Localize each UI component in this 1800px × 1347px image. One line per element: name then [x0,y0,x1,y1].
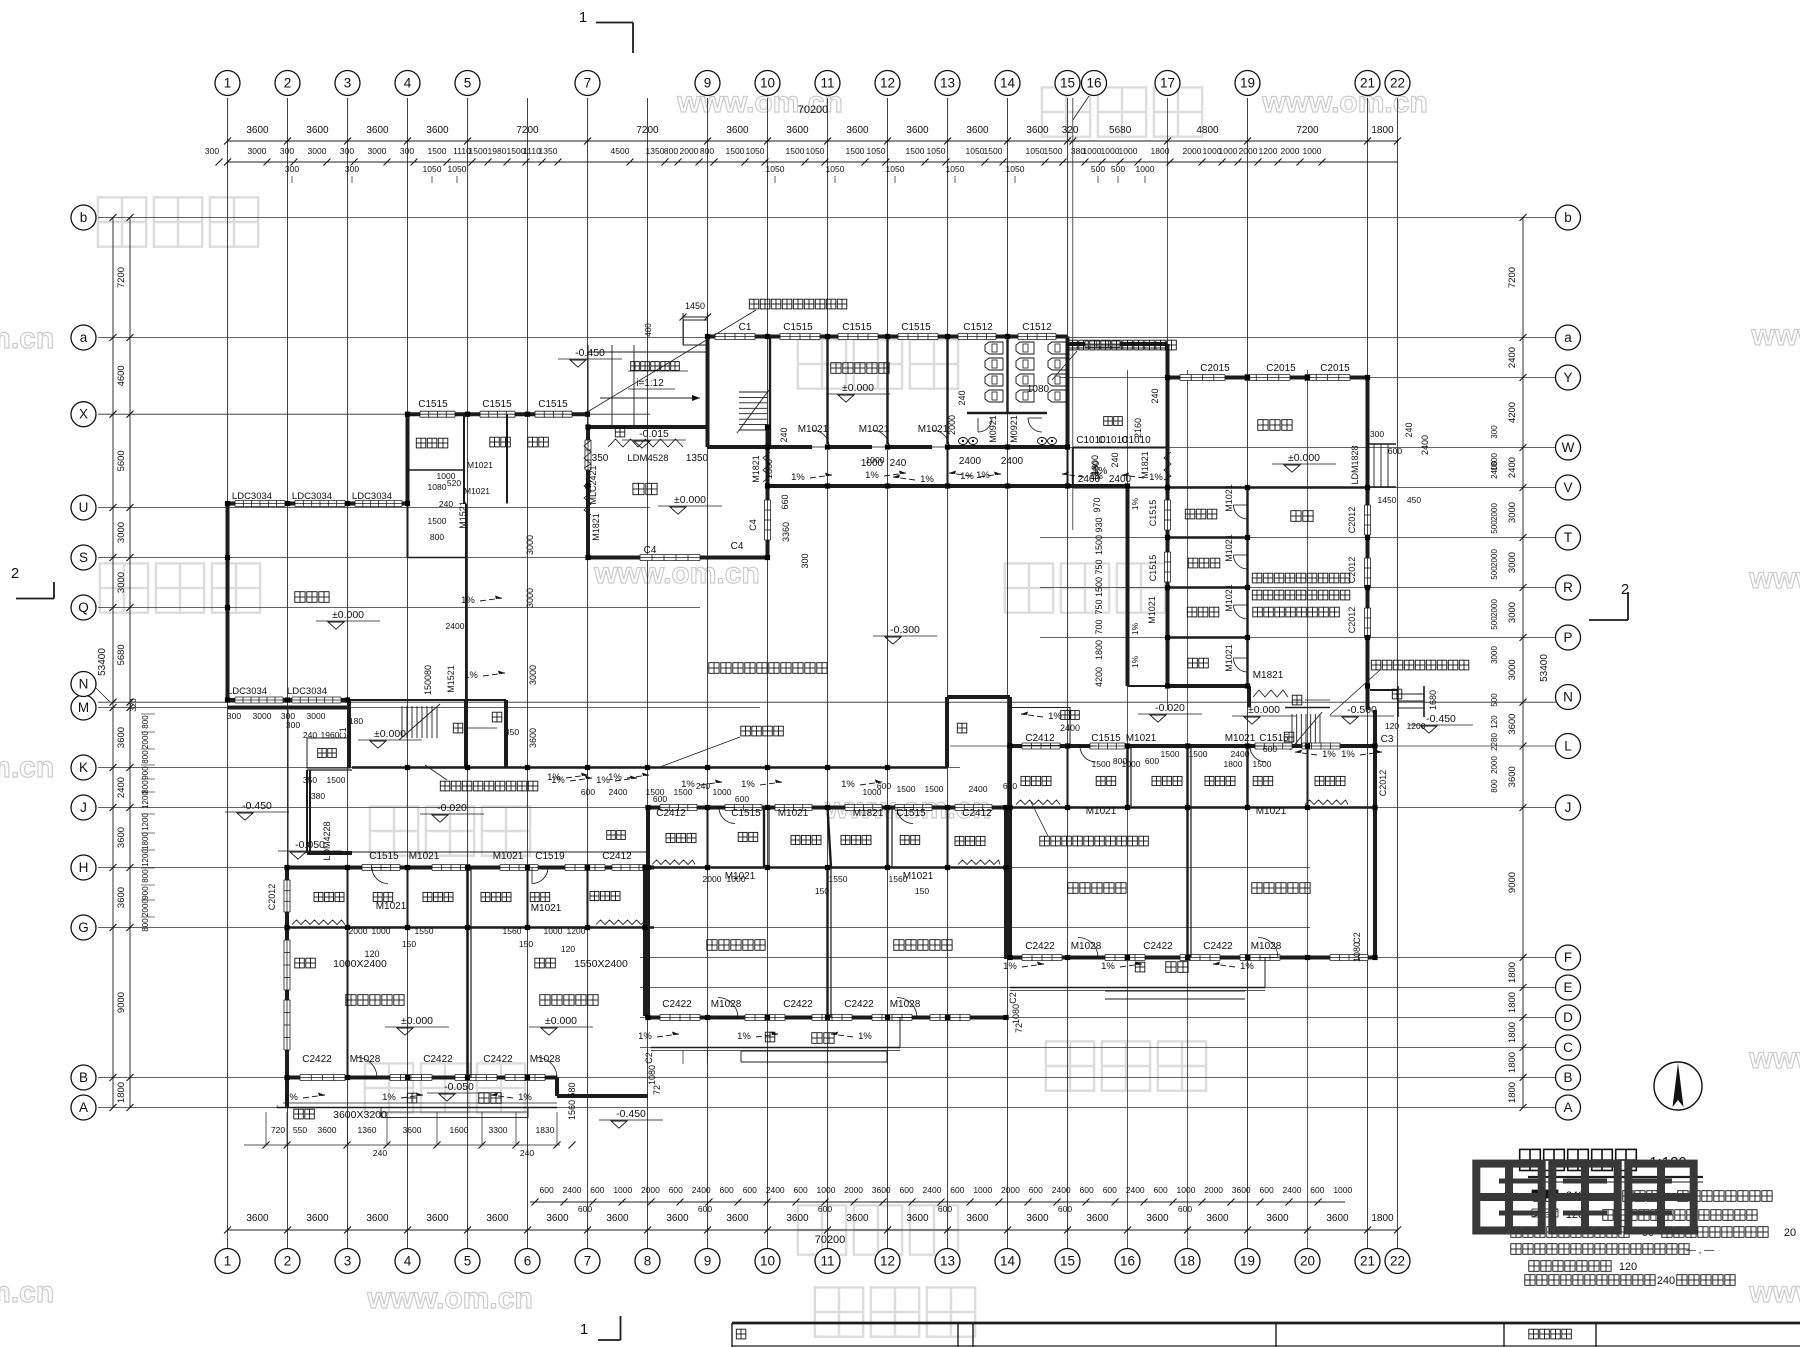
svg-text:2400: 2400 [1507,457,1518,478]
svg-text:1%: 1% [1240,961,1254,972]
svg-text:18: 18 [1180,1254,1195,1269]
svg-text:240: 240 [520,1148,534,1158]
svg-text:M1028: M1028 [711,999,742,1010]
svg-text:S: S [79,550,88,565]
svg-text:3600: 3600 [846,125,869,136]
svg-text:C2012: C2012 [267,884,277,911]
svg-text:M0921: M0921 [1009,415,1019,443]
room label medical [490,437,511,447]
svg-text:14: 14 [1000,76,1016,91]
svg-text:320: 320 [1062,125,1079,136]
svg-text:www.: www. [1748,1276,1800,1309]
svg-text:600: 600 [900,1185,914,1195]
svg-text:600: 600 [938,1204,952,1214]
svg-text:1%: 1% [638,1031,652,1042]
svg-text:C2422: C2422 [1025,941,1055,952]
svg-text:www.: www. [1748,562,1800,595]
svg-text:17: 17 [1160,76,1175,91]
svg-text:C2412: C2412 [656,808,686,819]
svg-text:1500: 1500 [674,787,693,797]
svg-text:1800: 1800 [1094,640,1104,660]
site logo [1476,1164,1693,1231]
svg-text:600: 600 [578,1204,592,1214]
svg-text:300: 300 [340,146,354,156]
svg-text:53400: 53400 [1539,654,1550,682]
svg-text:C1515: C1515 [482,399,512,410]
svg-text:300: 300 [285,164,299,174]
svg-text:b: b [1564,210,1572,225]
kitchen block outer walls [1165,375,1371,711]
svg-text:7200: 7200 [636,125,659,136]
svg-text:1560: 1560 [567,1100,577,1120]
svg-text:2: 2 [284,76,292,91]
svg-text:1350: 1350 [686,453,709,464]
svg-text:-0.500: -0.500 [1347,704,1377,716]
stair flight A treads [737,390,769,433]
svg-text:3600: 3600 [966,1213,989,1224]
svg-text:1800: 1800 [1507,962,1518,983]
svg-text:C4: C4 [731,541,744,552]
svg-text:120: 120 [561,944,575,954]
svg-text:240: 240 [957,390,967,405]
svg-text:900: 900 [141,886,150,900]
svg-text:1000: 1000 [1122,759,1141,769]
svg-text:1800: 1800 [141,832,150,850]
svg-text:19: 19 [1240,76,1255,91]
door zigzags vertical [584,440,1288,697]
svg-text:1500: 1500 [846,146,865,156]
svg-text:9: 9 [704,1254,712,1269]
room label inner court [709,663,827,674]
svg-text:300: 300 [286,720,300,730]
svg-text:580: 580 [567,1082,577,1097]
svg-text:800: 800 [664,146,678,156]
svg-text:1%: 1% [608,772,622,783]
svg-text:1800: 1800 [1507,1052,1518,1073]
svg-text:1550X2400: 1550X2400 [574,958,628,970]
svg-text:7200: 7200 [516,125,539,136]
svg-text:1000: 1000 [1219,146,1238,156]
svg-text:C1515: C1515 [369,851,399,862]
left dimension chain [97,214,155,1111]
svg-text:300: 300 [345,164,359,174]
svg-text:660: 660 [780,494,790,509]
svg-text:3600: 3600 [786,125,809,136]
svg-text:M1821: M1821 [591,513,601,541]
axis grid vertical lines [228,98,1398,1248]
center building (units 3-4) outer walls [647,805,1007,1021]
svg-text:1%: 1% [791,472,805,483]
svg-text:800: 800 [141,750,150,764]
svg-text:M1021: M1021 [531,903,562,914]
svg-text:E: E [1563,980,1572,995]
svg-text:700: 700 [1094,619,1104,634]
svg-text:3600: 3600 [1026,1213,1049,1224]
svg-text:9000: 9000 [1507,872,1518,893]
grid bubbles bottom [215,1249,1410,1274]
svg-text:240: 240 [696,781,710,791]
right building service partitions [1068,746,1308,958]
svg-text:9: 9 [704,76,712,91]
svg-text:11: 11 [820,1254,834,1269]
svg-text:C1515: C1515 [418,399,448,410]
svg-text:3000: 3000 [308,146,327,156]
svg-text:800: 800 [700,146,714,156]
svg-text:1000: 1000 [1119,146,1138,156]
svg-text:1800: 1800 [116,1082,127,1103]
svg-text:3600: 3600 [1086,1213,1109,1224]
svg-text:1050: 1050 [1026,146,1045,156]
svg-text:500: 500 [1490,566,1499,580]
svg-text:2000: 2000 [1490,599,1499,617]
svg-text:M1021: M1021 [859,424,890,435]
grid bubbles right [1556,205,1581,1120]
svg-text:1050: 1050 [886,164,905,174]
svg-text:C1: C1 [338,727,348,739]
svg-text:2400: 2400 [1001,456,1024,467]
svg-text:600: 600 [743,1185,757,1195]
room label rough processing [1258,420,1292,431]
svg-text:2000: 2000 [141,731,150,749]
section marker 2 right [1589,581,1629,620]
svg-text:3600: 3600 [116,887,127,908]
svg-text:600: 600 [1058,1204,1072,1214]
svg-text:2400: 2400 [766,1185,785,1195]
svg-text:P: P [1563,630,1572,645]
svg-text:1800: 1800 [1507,1022,1518,1043]
svg-text:1%: 1% [1130,622,1140,635]
flower bed near unit5 [1010,708,1070,746]
svg-text:3600: 3600 [426,125,449,136]
svg-text:1200: 1200 [141,849,150,867]
room label side food store [1188,558,1220,568]
svg-text:M1021: M1021 [1126,733,1157,744]
svg-text:1800: 1800 [764,459,774,479]
svg-text:3600: 3600 [366,125,389,136]
svg-text:750: 750 [1094,599,1104,614]
svg-text:600: 600 [590,1185,604,1195]
svg-text:4600: 4600 [116,365,127,386]
svg-text:1500: 1500 [726,146,745,156]
svg-text:3600: 3600 [1232,1185,1251,1195]
svg-text:240: 240 [779,427,789,442]
svg-text:-0.450: -0.450 [575,347,605,359]
svg-text:1350: 1350 [539,146,558,156]
svg-text:1050: 1050 [946,164,965,174]
svg-text:M1028: M1028 [890,999,921,1010]
svg-text:LDC3034: LDC3034 [292,491,332,502]
svg-text:1080: 1080 [1352,942,1362,962]
svg-text:2000: 2000 [680,146,699,156]
svg-text:13: 13 [940,76,955,91]
svg-text:240: 240 [890,458,907,469]
svg-text:2000: 2000 [1204,1185,1223,1195]
svg-text:1000: 1000 [544,926,563,936]
svg-text:5: 5 [464,76,472,91]
svg-text:1%: 1% [920,474,934,485]
svg-text:2400: 2400 [692,1185,711,1195]
svg-text:1000: 1000 [973,1185,992,1195]
svg-text:1550: 1550 [829,874,848,884]
svg-text:1%: 1% [960,471,974,482]
svg-text:600: 600 [735,794,749,804]
svg-text:3600: 3600 [306,125,329,136]
stair C flight [1285,708,1330,751]
svg-text:C2422: C2422 [662,999,692,1010]
toilet room labels [314,776,1345,901]
svg-text:2400: 2400 [446,621,465,631]
svg-text:M0921: M0921 [988,415,998,443]
svg-text:A: A [1563,1100,1572,1115]
svg-text:930: 930 [1094,517,1104,532]
svg-text:1000: 1000 [1333,1185,1352,1195]
svg-text:12: 12 [880,76,895,91]
corridor edge V line [768,447,1128,488]
svg-text:K: K [79,760,88,775]
svg-text:1800: 1800 [1507,1082,1518,1103]
svg-text:720: 720 [271,1125,285,1135]
room label music room [295,592,329,603]
left building balcony [277,1103,557,1118]
svg-text:a: a [1564,330,1572,345]
svg-text:2: 2 [284,1254,292,1269]
svg-text:1800: 1800 [1151,146,1170,156]
svg-text:3600: 3600 [726,1213,749,1224]
svg-text:2280: 2280 [1490,733,1499,751]
svg-text:12: 12 [880,1254,895,1269]
section marker 1 bottom [580,1316,621,1340]
svg-text:LDM4228: LDM4228 [322,821,332,860]
svg-text:C: C [1563,1040,1573,1055]
svg-text:a: a [80,330,88,345]
svg-text:600: 600 [720,1185,734,1195]
svg-text:1000: 1000 [727,874,746,884]
svg-text:C2412: C2412 [1025,733,1055,744]
svg-text:C1515: C1515 [1091,733,1121,744]
svg-text:1050: 1050 [966,146,985,156]
svg-text:1%: 1% [1130,655,1140,668]
svg-text:240: 240 [1404,422,1414,437]
washing room labels [373,776,1273,901]
svg-text:600: 600 [581,787,595,797]
svg-text:300: 300 [227,711,241,721]
svg-text:A: A [79,1100,88,1115]
svg-text:16: 16 [1120,1254,1135,1269]
walkway step walls near unit5 [947,697,1010,768]
svg-text:1%: 1% [1341,749,1355,760]
svg-text:500: 500 [1490,520,1499,534]
svg-text:72: 72 [652,1085,662,1095]
svg-text:C1515: C1515 [896,808,926,819]
kitchen note text [1252,573,1350,617]
svg-text:320: 320 [129,698,138,712]
svg-text:om.cn: om.cn [0,1276,54,1309]
svg-text:10: 10 [760,76,775,91]
svg-text:380: 380 [311,791,325,801]
svg-text:600: 600 [653,794,667,804]
svg-text:3000: 3000 [116,572,127,593]
svg-text:1560: 1560 [503,926,522,936]
svg-text:C4: C4 [748,519,758,531]
svg-text:300: 300 [1370,429,1384,439]
svg-text:1080: 1080 [1011,1004,1021,1024]
svg-text:11: 11 [820,76,834,91]
svg-text:3600: 3600 [246,1213,269,1224]
svg-text:19: 19 [1240,1254,1255,1269]
svg-text:22: 22 [1390,76,1405,91]
doors M1021 block A south wall [812,430,949,450]
balcony labels [479,962,1188,1104]
svg-text:3600: 3600 [1146,1213,1169,1224]
svg-text:1500: 1500 [428,146,447,156]
svg-text:180: 180 [349,716,363,726]
svg-text:1%: 1% [382,1092,396,1103]
svg-text:1200: 1200 [1259,146,1278,156]
svg-text:C2: C2 [1008,992,1018,1004]
wall music room east [408,504,467,701]
svg-text:4800: 4800 [1196,125,1219,136]
svg-text:-0.015: -0.015 [639,428,669,440]
svg-text:-0.450: -0.450 [616,1108,646,1120]
svg-text:1600: 1600 [450,1125,469,1135]
svg-text:2400: 2400 [563,1185,582,1195]
grid bubbles top [215,71,1410,121]
room label isolation room [416,438,448,448]
svg-text:2: 2 [11,565,19,582]
svg-text:1000: 1000 [817,1185,836,1195]
ramp area (accessible ramp) [588,301,711,427]
window door code labels horizontal [227,322,1394,1065]
svg-text:M1021: M1021 [778,808,809,819]
updown arrows [407,427,1402,1103]
svg-text:20: 20 [1300,1254,1315,1269]
svg-text:C1515: C1515 [1148,500,1158,527]
svg-text:±0.000: ±0.000 [1248,704,1280,716]
svg-text:5680: 5680 [1109,125,1132,136]
svg-text:2000: 2000 [1239,146,1258,156]
svg-text:3600: 3600 [318,1125,337,1135]
svg-text:N: N [79,677,89,692]
svg-text:16: 16 [1086,76,1101,91]
svg-text:1050: 1050 [826,164,845,174]
svg-text:www.: www. [1750,319,1800,352]
svg-text:5680: 5680 [116,644,127,665]
svg-text:13: 13 [940,1254,955,1269]
activity unit labels [346,883,1310,1006]
svg-text:M1021: M1021 [1086,806,1117,817]
svg-text:2400: 2400 [1060,723,1080,733]
svg-text:3000: 3000 [116,522,127,543]
svg-text:M1821: M1821 [853,808,884,819]
svg-text:800: 800 [141,715,150,729]
title block bottom [732,1323,1800,1347]
svg-text:4: 4 [404,1254,412,1269]
svg-text:1830: 1830 [536,1125,555,1135]
svg-text:1500: 1500 [1189,749,1208,759]
svg-text:3360: 3360 [781,522,791,542]
svg-text:550: 550 [293,1125,307,1135]
corridor K line edge [352,766,947,769]
svg-text:1560: 1560 [889,874,908,884]
stair reference notes [425,299,1469,846]
svg-text:1550: 1550 [415,926,434,936]
svg-text:2000: 2000 [1183,146,1202,156]
svg-text:500: 500 [1490,616,1499,630]
svg-text:G: G [78,920,89,935]
svg-text:900: 900 [141,766,150,780]
svg-text:2400: 2400 [969,784,988,794]
svg-text:M1028: M1028 [530,1054,561,1065]
svg-text:LDM1828: LDM1828 [1350,445,1360,484]
svg-text:1050: 1050 [927,146,946,156]
svg-text:1500: 1500 [1044,146,1063,156]
svg-text:2400: 2400 [1109,474,1132,485]
svg-text:1%: 1% [461,595,475,606]
flower bed labels [318,417,1123,840]
svg-text:b: b [80,210,88,225]
svg-text:Y: Y [1563,370,1572,385]
bottom dimension chain [224,1185,1401,1246]
svg-text:M: M [78,700,89,715]
svg-text:1500: 1500 [1094,577,1104,597]
svg-text:3000: 3000 [1507,602,1518,623]
svg-text:www.: www. [1748,1042,1800,1075]
svg-text:80: 80 [423,665,433,675]
svg-text:2400: 2400 [923,1185,942,1195]
svg-text:C2015: C2015 [1200,363,1230,374]
svg-text:3600: 3600 [403,1125,422,1135]
svg-text:300: 300 [400,146,414,156]
svg-text:1000: 1000 [713,787,732,797]
wall block-A teachers room and toilets [708,334,1068,448]
svg-text:C2422: C2422 [844,999,874,1010]
svg-text:1000: 1000 [372,926,391,936]
svg-text:1080: 1080 [428,482,447,492]
svg-text:M1028: M1028 [1251,941,1282,952]
svg-text:C2412: C2412 [602,851,632,862]
svg-text:1%: 1% [1130,497,1140,510]
svg-text:3000: 3000 [528,665,538,685]
svg-text:1800: 1800 [1371,125,1394,136]
svg-text:C2015: C2015 [1266,363,1296,374]
svg-text:J: J [80,800,87,815]
svg-text:±0.000: ±0.000 [401,1015,433,1027]
svg-text:14: 14 [1000,1254,1016,1269]
svg-text:C2422: C2422 [302,1054,332,1065]
kitchen inner partitions [1168,488,1368,687]
svg-text:LDM4528: LDM4528 [627,453,668,464]
svg-text:2400: 2400 [1126,1185,1145,1195]
svg-text:6: 6 [524,1254,532,1269]
svg-text:M1521: M1521 [458,501,468,529]
svg-text:600: 600 [1029,1185,1043,1195]
svg-text:800: 800 [141,869,150,883]
svg-text:800: 800 [430,532,444,542]
right dimension chain [1490,214,1550,1111]
room label main food store [1185,509,1217,519]
svg-text:om.cn: om.cn [0,751,54,784]
svg-text:750: 750 [1094,559,1104,574]
svg-text:M1021: M1021 [1224,584,1234,612]
svg-text:240: 240 [1657,1275,1675,1287]
svg-text:3600: 3600 [1507,766,1518,787]
svg-text:C1515: C1515 [731,808,761,819]
svg-text:U: U [79,500,89,515]
svg-text:72: 72 [1014,1023,1024,1033]
svg-text:1050: 1050 [766,164,785,174]
svg-text:C2422: C2422 [1143,941,1173,952]
svg-text:1500: 1500 [1253,759,1272,769]
